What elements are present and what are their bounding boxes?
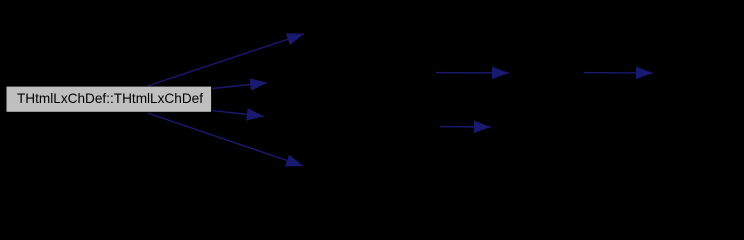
edge 2: node to right target (upper) [213, 83, 268, 89]
edge 7: lower horizontal arrow [440, 126, 491, 128]
node THtmlLxChDef::THtmlLxChDef [6, 86, 212, 112]
edge 4: node to lower-right target [148, 113, 304, 166]
edge 5: middle horizontal arrow (left) [436, 72, 509, 74]
edge 1: node to upper-right target [148, 34, 305, 86]
edge 6: middle horizontal arrow (right) [584, 72, 653, 74]
svg-text:THtmlLxChDef::THtmlLxChDef: THtmlLxChDef::THtmlLxChDef [17, 90, 203, 106]
edge 3: node to right target (lower) [213, 111, 264, 117]
